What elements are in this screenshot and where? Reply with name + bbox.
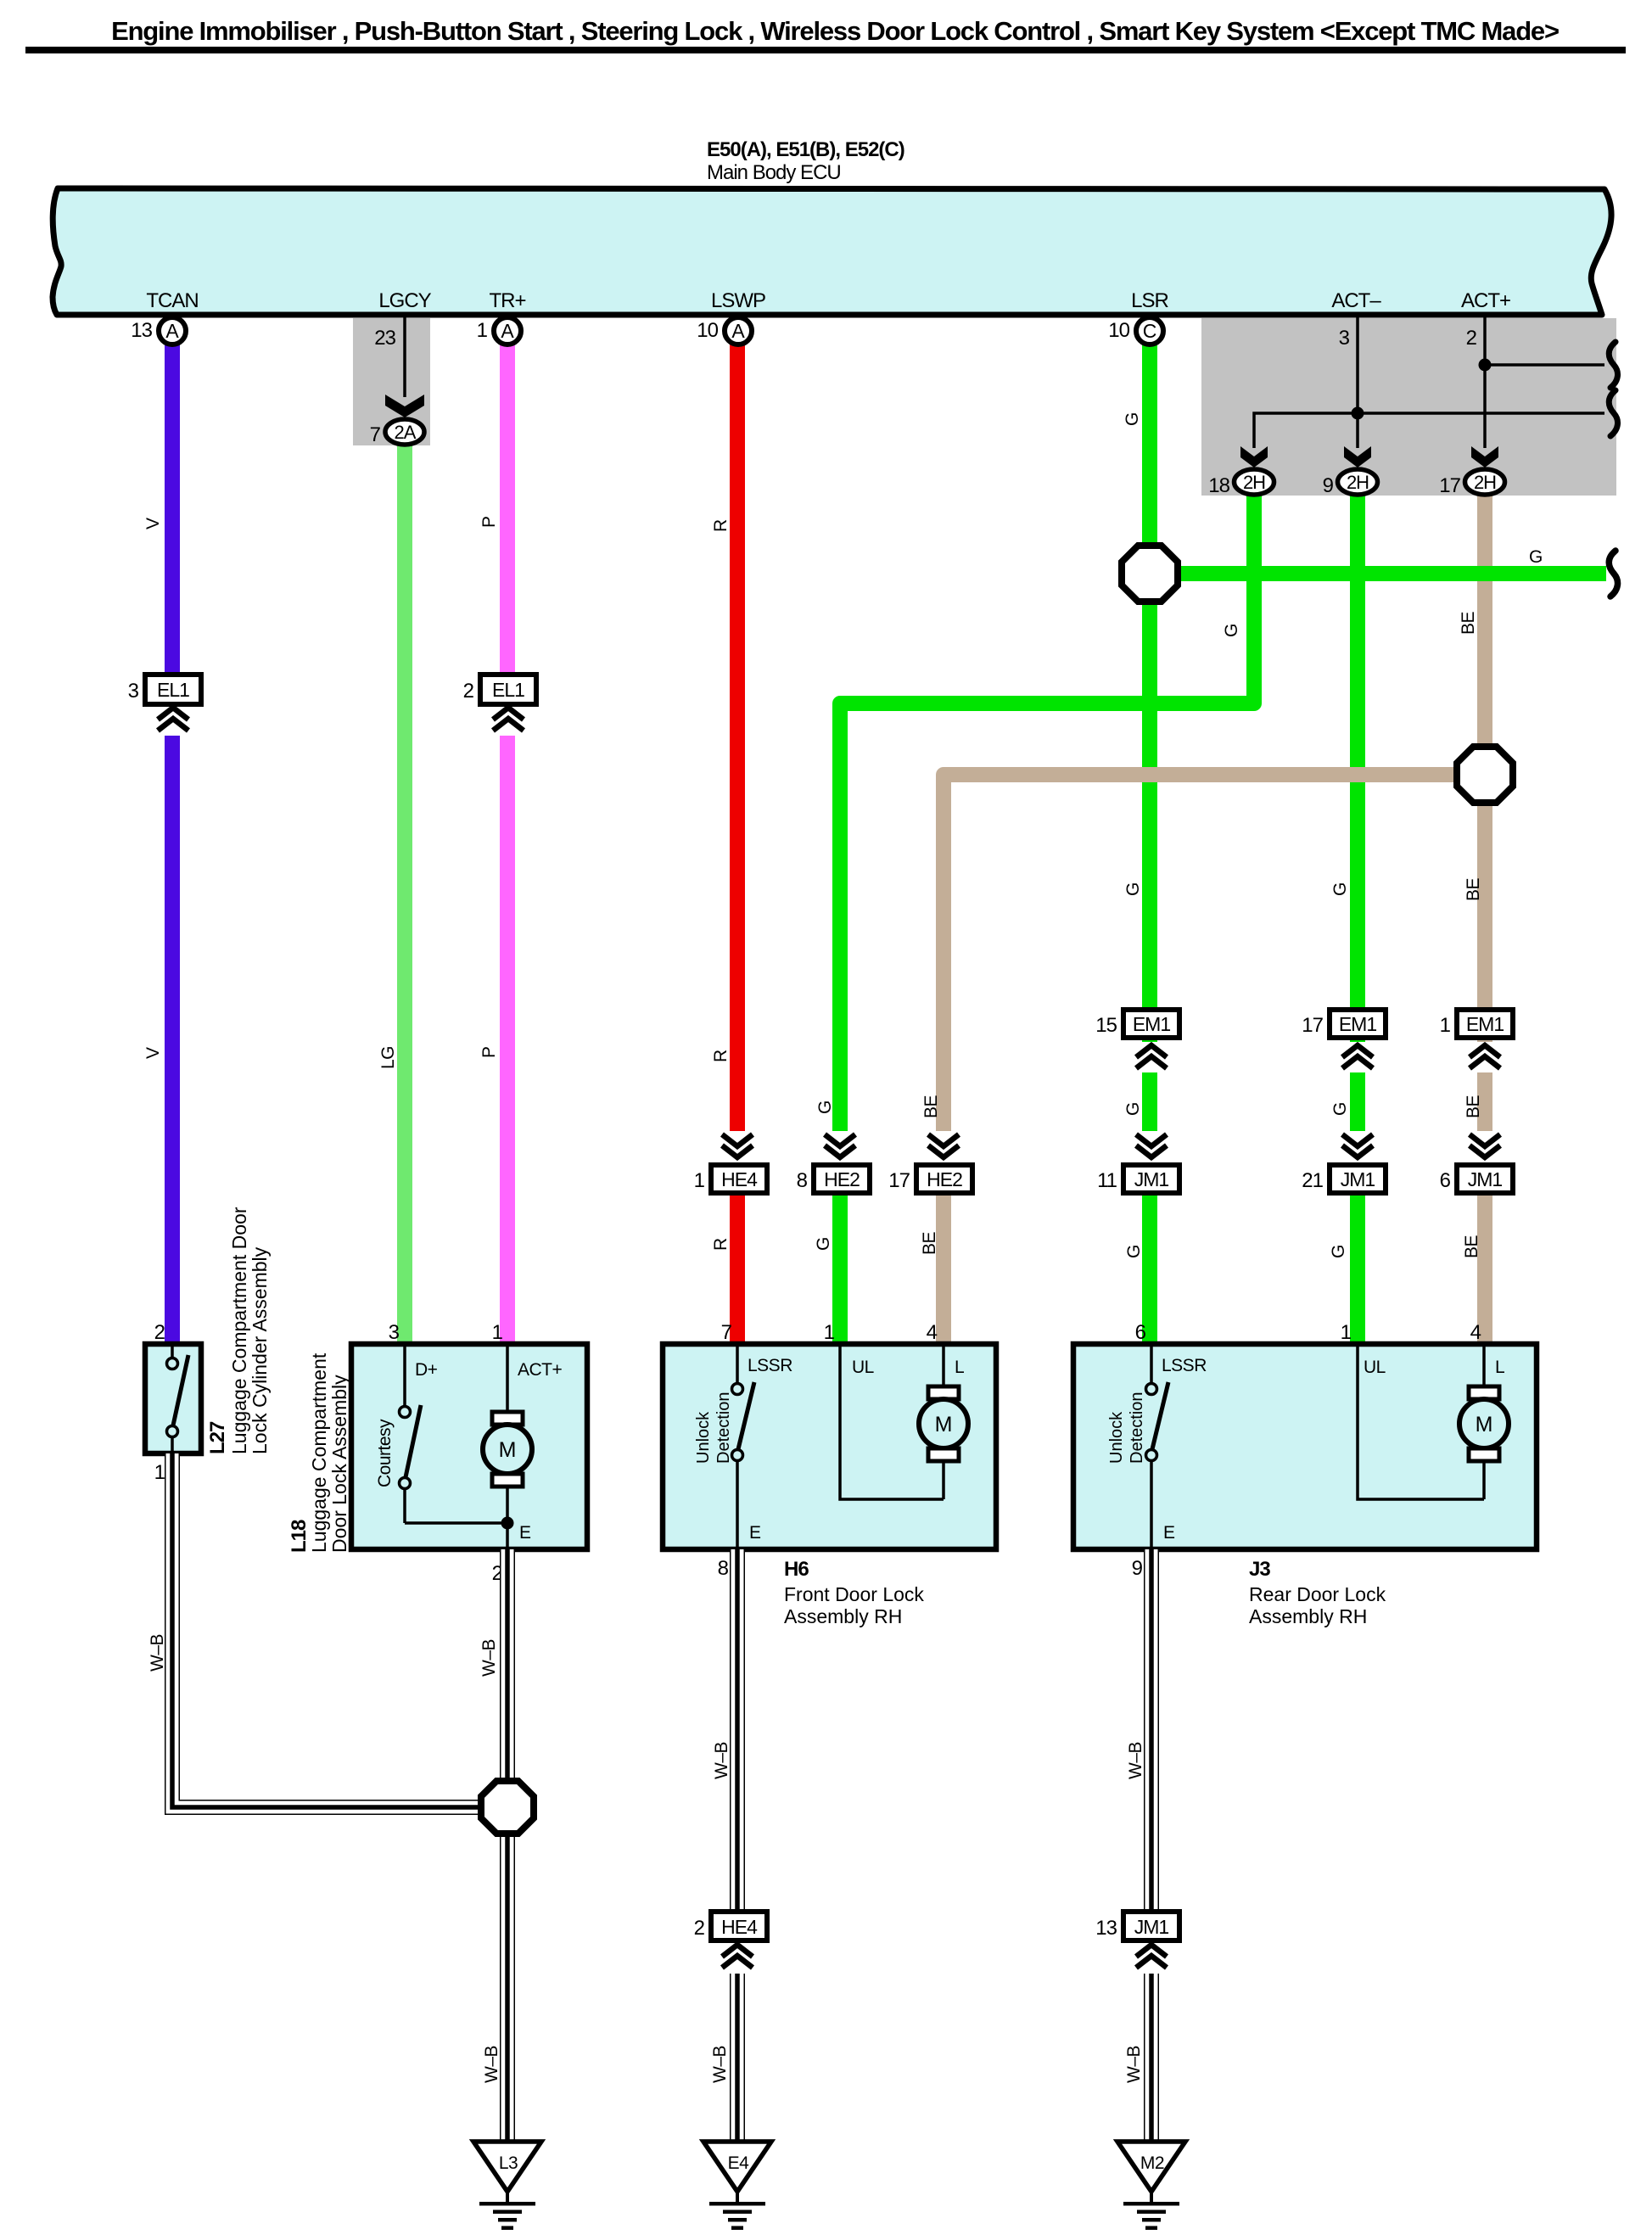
connector JM1 pin 6 bbox=[1440, 1131, 1513, 1193]
svg-text:1: 1 bbox=[1440, 1014, 1451, 1037]
svg-text:6: 6 bbox=[1440, 1169, 1451, 1192]
wire W-B (L18 pin2 to ground L3) bbox=[500, 1549, 515, 2142]
Main Body ECU box E50/E51/E52 bbox=[53, 188, 1611, 315]
arrow into 2H-17 bbox=[1471, 446, 1498, 468]
svg-text:Door Lock Assembly: Door Lock Assembly bbox=[328, 1375, 350, 1553]
svg-text:11: 11 bbox=[1097, 1169, 1117, 1192]
svg-text:1: 1 bbox=[477, 319, 488, 342]
svg-text:JM1: JM1 bbox=[1341, 1168, 1375, 1190]
svg-text:13: 13 bbox=[131, 319, 152, 342]
connector HE2 pin 17 bbox=[888, 1131, 972, 1193]
svg-text:M: M bbox=[499, 1438, 517, 1462]
svg-text:G: G bbox=[1123, 412, 1142, 426]
svg-text:EL1: EL1 bbox=[157, 679, 189, 701]
svg-text:G: G bbox=[1123, 882, 1143, 896]
svg-text:UL: UL bbox=[1364, 1358, 1386, 1377]
H6 unlock detection switch bbox=[732, 1347, 755, 1549]
svg-text:JM1: JM1 bbox=[1134, 1916, 1169, 1938]
connector HE2 pin 8 bbox=[797, 1131, 870, 1193]
svg-text:1: 1 bbox=[492, 1321, 503, 1344]
svg-text:P: P bbox=[479, 516, 499, 528]
svg-text:BE: BE bbox=[1459, 611, 1478, 635]
pin 10 connector circle C (LSR) bbox=[1108, 317, 1163, 344]
L27 switch bbox=[167, 1347, 189, 1453]
connector EL1 pin 3 bbox=[128, 675, 201, 736]
svg-text:BE: BE bbox=[1462, 1235, 1481, 1258]
svg-text:3: 3 bbox=[128, 680, 139, 703]
svg-text:M2: M2 bbox=[1140, 2153, 1164, 2173]
wire BE branch (splice to H6 pin4 via HE2-17) bbox=[944, 775, 1477, 1347]
svg-text:TR+: TR+ bbox=[489, 289, 525, 312]
svg-text:ACT+: ACT+ bbox=[1461, 289, 1510, 312]
svg-text:L27: L27 bbox=[206, 1421, 229, 1454]
svg-text:BE: BE bbox=[1464, 877, 1483, 901]
svg-text:8: 8 bbox=[797, 1169, 808, 1192]
svg-text:L: L bbox=[1495, 1358, 1504, 1377]
svg-text:2A: 2A bbox=[395, 422, 417, 443]
wire G branch (2H-18 to H6 pin1 via HE2-8) bbox=[840, 493, 1254, 1347]
arrow into 2H-18 bbox=[1240, 446, 1268, 468]
svg-text:7: 7 bbox=[721, 1321, 732, 1344]
H6 Front Door Lock Assembly RH box bbox=[663, 1344, 996, 1549]
svg-text:W–B: W–B bbox=[482, 2046, 501, 2083]
svg-text:W–B: W–B bbox=[1126, 1742, 1145, 1779]
wire V (TCAN to L27 pin2) bbox=[165, 343, 180, 1347]
pin 13 connector circle A (TCAN) bbox=[131, 317, 186, 344]
svg-text:1: 1 bbox=[1341, 1321, 1352, 1344]
svg-text:Detection: Detection bbox=[1128, 1392, 1146, 1464]
svg-text:G: G bbox=[814, 1237, 833, 1251]
svg-text:LSSR: LSSR bbox=[748, 1356, 792, 1375]
svg-text:ACT+: ACT+ bbox=[518, 1360, 563, 1380]
svg-text:10: 10 bbox=[697, 319, 718, 342]
pin 23 wire (LGCY drop) bbox=[374, 317, 405, 397]
svg-text:M: M bbox=[935, 1413, 953, 1436]
wire R (LSWP to H6 pin7) bbox=[730, 343, 745, 1347]
svg-text:L: L bbox=[955, 1358, 964, 1377]
svg-text:EL1: EL1 bbox=[492, 679, 524, 701]
pin 2 wire (ACT+ drop) bbox=[1466, 317, 1485, 448]
svg-text:4: 4 bbox=[927, 1321, 938, 1344]
svg-text:EM1: EM1 bbox=[1133, 1013, 1171, 1035]
svg-text:3: 3 bbox=[389, 1321, 400, 1344]
svg-text:9: 9 bbox=[1132, 1557, 1143, 1580]
svg-text:V: V bbox=[143, 1047, 163, 1059]
connector HE4 pin 2 bbox=[694, 1912, 767, 1974]
svg-text:HE4: HE4 bbox=[721, 1916, 758, 1938]
svg-text:Luggage Compartment: Luggage Compartment bbox=[308, 1352, 330, 1553]
svg-text:17: 17 bbox=[1439, 474, 1460, 497]
connector JM1 pin 21 bbox=[1302, 1131, 1386, 1193]
svg-text:21: 21 bbox=[1302, 1169, 1323, 1192]
splice octagon tan bbox=[1457, 747, 1513, 803]
svg-text:R: R bbox=[711, 519, 731, 532]
svg-text:LSR: LSR bbox=[1131, 289, 1168, 312]
svg-text:L18: L18 bbox=[288, 1520, 311, 1553]
svg-text:2H: 2H bbox=[1243, 472, 1265, 493]
svg-text:G: G bbox=[815, 1100, 835, 1114]
svg-text:E50(A), E51(B), E52(C): E50(A), E51(B), E52(C) bbox=[707, 138, 904, 161]
svg-text:G: G bbox=[1123, 1102, 1143, 1116]
connector EM1 pin 17 bbox=[1302, 1010, 1386, 1072]
svg-text:R: R bbox=[711, 1238, 731, 1251]
svg-text:4: 4 bbox=[1470, 1321, 1481, 1344]
svg-text:18: 18 bbox=[1208, 474, 1229, 497]
svg-text:2: 2 bbox=[1466, 327, 1477, 350]
svg-text:2: 2 bbox=[154, 1321, 165, 1344]
svg-text:8: 8 bbox=[718, 1557, 729, 1580]
svg-text:LSWP: LSWP bbox=[711, 289, 765, 312]
svg-text:W–B: W–B bbox=[710, 2046, 730, 2083]
connector JM1 pin 11 bbox=[1097, 1131, 1179, 1193]
svg-text:Detection: Detection bbox=[714, 1392, 733, 1464]
wire W-B (J3 pin9 to ground M2) bbox=[1144, 1549, 1159, 2142]
svg-text:Unlock: Unlock bbox=[694, 1411, 713, 1464]
wire LG (2A-7 to L18 pin3) bbox=[397, 442, 412, 1347]
svg-text:P: P bbox=[479, 1046, 499, 1058]
arrow into 2H-9 bbox=[1344, 446, 1371, 468]
svg-text:L3: L3 bbox=[499, 2153, 518, 2173]
svg-text:17: 17 bbox=[1302, 1014, 1323, 1037]
J3 internal wire UL to motor bbox=[1358, 1347, 1484, 1499]
svg-text:LSSR: LSSR bbox=[1162, 1356, 1207, 1375]
svg-text:A: A bbox=[731, 320, 745, 342]
connector EL1 pin 2 bbox=[463, 675, 536, 736]
wire-continues squiggle on ACT+ branch bbox=[1609, 342, 1617, 388]
junction dot on ACT- bbox=[1352, 407, 1364, 420]
svg-text:W–B: W–B bbox=[479, 1639, 499, 1677]
wire G (LSR to J3 pin6 via splice) bbox=[1142, 343, 1157, 1347]
svg-text:Assembly RH: Assembly RH bbox=[784, 1605, 902, 1627]
svg-text:7: 7 bbox=[370, 423, 381, 446]
H6 label Unlock Detection rotated bbox=[694, 1392, 733, 1464]
svg-text:3: 3 bbox=[1339, 327, 1350, 350]
H6 motor M bbox=[919, 1347, 968, 1499]
svg-text:BE: BE bbox=[921, 1095, 941, 1118]
pin 3 wire (ACT- drop) bbox=[1339, 317, 1358, 448]
svg-text:HE2: HE2 bbox=[927, 1168, 962, 1190]
splice octagon W-B bbox=[481, 1781, 534, 1834]
wire G (2H-9 to J3 pin1) bbox=[1350, 493, 1365, 1347]
wire W-B (L27 pin1 to splice) bbox=[172, 1453, 484, 1807]
svg-text:E: E bbox=[749, 1523, 761, 1543]
svg-text:G: G bbox=[1529, 547, 1543, 567]
connector HE4 pin 1 bbox=[694, 1131, 767, 1193]
svg-text:2: 2 bbox=[463, 680, 474, 703]
svg-text:V: V bbox=[143, 518, 163, 529]
arrow into 2A bbox=[385, 395, 424, 417]
svg-text:1: 1 bbox=[694, 1169, 705, 1192]
svg-text:JM1: JM1 bbox=[1134, 1168, 1169, 1190]
svg-text:W–B: W–B bbox=[1124, 2046, 1144, 2083]
L18 courtesy switch bbox=[400, 1347, 508, 1523]
wire P (TR+ to L18 pin1) bbox=[500, 343, 515, 1347]
svg-text:G: G bbox=[1222, 624, 1241, 637]
svg-text:E4: E4 bbox=[728, 2153, 750, 2173]
svg-text:Main Body ECU: Main Body ECU bbox=[707, 161, 841, 184]
ground M2 bbox=[1117, 2142, 1185, 2230]
svg-text:2H: 2H bbox=[1474, 472, 1496, 493]
svg-text:M: M bbox=[1476, 1413, 1493, 1436]
svg-text:JM1: JM1 bbox=[1468, 1168, 1503, 1190]
svg-text:Engine Immobiliser , Push-Butt: Engine Immobiliser , Push-Button Start ,… bbox=[111, 16, 1559, 46]
svg-text:UL: UL bbox=[852, 1358, 874, 1377]
svg-text:17: 17 bbox=[888, 1169, 910, 1192]
connector oval 2H pin 9 bbox=[1323, 469, 1378, 497]
svg-text:15: 15 bbox=[1095, 1014, 1117, 1037]
svg-text:1: 1 bbox=[824, 1321, 835, 1344]
junction dot on ACT+ bbox=[1479, 359, 1492, 372]
wire-continues squiggle on cross branch bbox=[1609, 390, 1617, 436]
svg-text:EM1: EM1 bbox=[1339, 1013, 1377, 1035]
svg-text:J3: J3 bbox=[1249, 1558, 1270, 1581]
L18 internal wire E to pin 2 bbox=[506, 1523, 509, 1549]
J3 label Unlock Detection rotated bbox=[1107, 1392, 1146, 1464]
svg-text:A: A bbox=[501, 320, 514, 342]
svg-text:Assembly RH: Assembly RH bbox=[1249, 1605, 1367, 1627]
grey shade box behind ACT network bbox=[1201, 318, 1616, 496]
svg-text:Front Door Lock: Front Door Lock bbox=[784, 1583, 924, 1605]
svg-text:W–B: W–B bbox=[148, 1634, 167, 1672]
svg-text:TCAN: TCAN bbox=[146, 289, 198, 312]
svg-text:HE4: HE4 bbox=[721, 1168, 758, 1190]
svg-text:1: 1 bbox=[154, 1461, 165, 1484]
svg-text:10: 10 bbox=[1108, 319, 1129, 342]
ground E4 bbox=[703, 2142, 771, 2230]
wire BE (2H-17 to J3 pin4) bbox=[1477, 493, 1492, 1347]
svg-text:R: R bbox=[711, 1050, 731, 1062]
svg-text:G: G bbox=[1330, 1102, 1350, 1116]
connector oval 2A pin 7 bbox=[370, 419, 424, 446]
svg-text:Lock Cylinder Assembly: Lock Cylinder Assembly bbox=[249, 1246, 271, 1454]
title underline bbox=[25, 47, 1626, 53]
svg-text:G: G bbox=[1330, 882, 1350, 896]
L27 Luggage Compartment Door Lock Cylinder Assembly box bbox=[145, 1344, 201, 1453]
svg-text:W–B: W–B bbox=[712, 1742, 731, 1779]
svg-text:LGCY: LGCY bbox=[378, 289, 431, 312]
svg-text:C: C bbox=[1143, 320, 1157, 342]
J3 Rear Door Lock Assembly RH box bbox=[1073, 1344, 1537, 1549]
svg-text:Unlock: Unlock bbox=[1107, 1411, 1126, 1464]
ground L3 bbox=[473, 2142, 541, 2230]
svg-text:13: 13 bbox=[1095, 1917, 1117, 1940]
wire-continues squiggle on green horizontal bbox=[1609, 551, 1617, 596]
splice octagon J/C green bbox=[1122, 546, 1178, 602]
svg-text:E: E bbox=[519, 1523, 531, 1543]
wire ACT+ branch to right edge bbox=[1485, 363, 1604, 367]
svg-text:Rear Door Lock: Rear Door Lock bbox=[1249, 1583, 1386, 1605]
svg-text:H6: H6 bbox=[784, 1558, 809, 1581]
svg-text:6: 6 bbox=[1135, 1321, 1146, 1344]
svg-text:G: G bbox=[1329, 1245, 1348, 1258]
wire cross branch (to 2H-18) bbox=[1254, 413, 1604, 448]
svg-text:BE: BE bbox=[920, 1231, 939, 1255]
connector oval 2H pin 17 bbox=[1439, 469, 1504, 497]
connector JM1 pin 13 bbox=[1095, 1912, 1179, 1974]
connector EM1 pin 1 bbox=[1440, 1010, 1513, 1072]
J3 motor M bbox=[1459, 1347, 1509, 1499]
svg-text:A: A bbox=[165, 320, 179, 342]
svg-text:ACT–: ACT– bbox=[1331, 289, 1381, 312]
wire W-B (H6 pin8 to ground E4) bbox=[730, 1549, 745, 2142]
connector EM1 pin 15 bbox=[1095, 1010, 1179, 1072]
svg-text:Luggage Compartment Door: Luggage Compartment Door bbox=[228, 1207, 250, 1454]
L18 node E junction dot bbox=[501, 1517, 514, 1530]
svg-text:2H: 2H bbox=[1347, 472, 1369, 493]
L18 Luggage Compartment Door Lock Assembly box bbox=[351, 1344, 587, 1549]
svg-text:HE2: HE2 bbox=[824, 1168, 860, 1190]
svg-text:23: 23 bbox=[374, 327, 395, 350]
svg-text:E: E bbox=[1163, 1523, 1175, 1543]
svg-text:2: 2 bbox=[694, 1917, 705, 1940]
svg-text:Courtesy: Courtesy bbox=[375, 1419, 395, 1487]
svg-text:LG: LG bbox=[378, 1046, 398, 1069]
grey shade box behind LGCY drop bbox=[353, 318, 430, 445]
svg-text:EM1: EM1 bbox=[1466, 1013, 1504, 1035]
svg-text:BE: BE bbox=[1464, 1095, 1483, 1118]
wire G horizontal (splice to right edge) bbox=[1162, 566, 1606, 581]
L18 motor M bbox=[483, 1347, 532, 1523]
H6 internal wire UL to motor bbox=[840, 1347, 944, 1499]
svg-text:G: G bbox=[1124, 1245, 1144, 1258]
svg-text:D+: D+ bbox=[415, 1360, 438, 1380]
J3 unlock detection switch bbox=[1146, 1347, 1169, 1549]
pin 1 connector circle A (TR+) bbox=[477, 317, 521, 344]
pin 10 connector circle A (LSWP) bbox=[697, 317, 752, 344]
svg-text:9: 9 bbox=[1323, 474, 1334, 497]
connector oval 2H pin 18 bbox=[1208, 469, 1274, 497]
